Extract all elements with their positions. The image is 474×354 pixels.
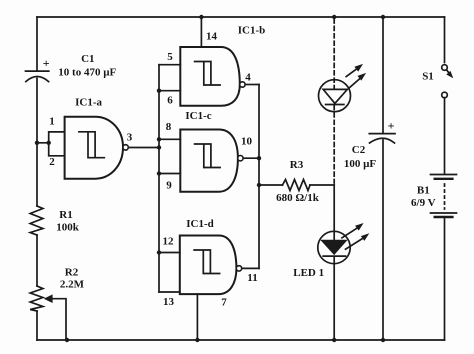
wire pin 14 (200, 17, 202, 47)
node junction left rail to IC1-a (35, 141, 39, 145)
svg-text:R1: R1 (59, 209, 72, 221)
svg-text:7: 7 (221, 297, 227, 309)
svg-text:C1: C1 (81, 53, 94, 65)
svg-text:100 µF: 100 µF (344, 158, 377, 170)
svg-text:4: 4 (245, 72, 251, 84)
wire pin 8 (159, 138, 180, 140)
schmitt symbol IC1-d (194, 250, 220, 274)
wire C2 branch lower (382, 140, 384, 340)
node junction bus pin12 (157, 250, 161, 254)
svg-text:2: 2 (49, 156, 55, 168)
svg-text:6: 6 (167, 95, 173, 107)
svg-text:IC1-d: IC1-d (186, 218, 214, 230)
capacitor C2 (369, 134, 395, 143)
LED alternate (open) (319, 80, 351, 112)
wire pin 5 (159, 64, 180, 66)
LED LED1 (318, 231, 350, 263)
svg-text:R3: R3 (290, 159, 304, 171)
resistor R1 (30, 206, 43, 235)
node junction bottom LED1 (332, 338, 336, 342)
schmitt symbol IC1-a (79, 132, 104, 158)
wire gate input bus (158, 65, 160, 292)
op-amp gate IC1-b body (180, 47, 240, 106)
node junction bottom pin7 (195, 338, 199, 342)
wire left rail mid (C1 to R1) (36, 79, 38, 207)
wire R2 to bottom rail (36, 311, 38, 340)
svg-text:R2: R2 (65, 267, 79, 279)
wire IC1-b output pin 4 (245, 84, 259, 86)
wire C2 branch upper (382, 17, 384, 134)
node junction bottom wiper (65, 338, 69, 342)
wire dashed alternate LED position lower (333, 106, 335, 184)
svg-text:12: 12 (163, 236, 175, 248)
op-amp gate IC1-d body (180, 236, 237, 295)
node junction top C2 branch (381, 15, 385, 19)
wire IC1-a input branch (37, 132, 65, 156)
svg-text:3: 3 (127, 132, 133, 144)
node junction bus pin3 (157, 145, 161, 149)
svg-text:10 to 470 µF: 10 to 470 µF (58, 67, 116, 79)
svg-text:5: 5 (167, 51, 173, 63)
node junction IC1-a input bracket (47, 141, 51, 145)
LED1 arrows (342, 223, 369, 249)
wire left rail upper (top to C1) (36, 17, 38, 71)
output bubble IC1-d (236, 266, 241, 271)
svg-text:+: + (388, 119, 395, 133)
svg-text:9: 9 (166, 180, 172, 192)
capacitor C1 (26, 71, 49, 82)
svg-text:10: 10 (241, 136, 253, 148)
node junction bus pin6 (157, 89, 161, 93)
svg-text:IC1-b: IC1-b (238, 25, 266, 37)
wire gate output bus (258, 85, 260, 269)
node junction output bus pin10 (257, 156, 261, 160)
svg-text:14: 14 (206, 31, 218, 43)
LED alternate arrows (346, 64, 366, 88)
wire pin 9 (159, 173, 180, 175)
wire top rail (37, 16, 445, 18)
output bubble IC1-a (123, 145, 128, 150)
svg-text:680 Ω/1k: 680 Ω/1k (276, 192, 320, 204)
schmitt symbol IC1-b (195, 62, 221, 86)
node junction bus pin8 (157, 137, 161, 141)
resistor R3 (259, 180, 334, 191)
svg-text:2.2M: 2.2M (60, 279, 85, 291)
svg-text:13: 13 (163, 296, 175, 308)
svg-text:+: + (43, 56, 50, 70)
svg-text:LED 1: LED 1 (293, 267, 324, 279)
node junction bus pin9 (157, 171, 161, 175)
wire bottom rail (37, 339, 445, 341)
svg-text:1: 1 (49, 116, 55, 128)
svg-text:C2: C2 (352, 144, 366, 156)
potentiometer R2 (30, 286, 43, 311)
op-amp gate IC1-c body (180, 130, 238, 192)
wire dashed alternate LED position upper (333, 19, 335, 89)
op-amp gate IC1-a body (65, 117, 123, 179)
wire R1 to R2 (36, 235, 38, 286)
wire battery to bottom rail (444, 219, 446, 340)
output bubble IC1-c (238, 156, 243, 161)
svg-text:100k: 100k (56, 222, 80, 234)
node junction top dashed branch (332, 15, 336, 19)
node junction top pin14 (199, 15, 203, 19)
svg-text:6/9 V: 6/9 V (411, 197, 436, 209)
svg-text:IC1-a: IC1-a (75, 97, 102, 109)
svg-text:S1: S1 (422, 71, 434, 83)
wire LED1 to bottom rail (333, 257, 335, 341)
svg-text:B1: B1 (417, 185, 430, 197)
schmitt symbol IC1-c (195, 144, 221, 168)
wire pin 7 to bottom rail (196, 294, 198, 340)
svg-text:11: 11 (247, 272, 257, 284)
node junction bottom C2 (381, 338, 385, 342)
switch S1 (442, 65, 454, 98)
output bubble IC1-b (240, 82, 245, 87)
wire R3 corner to LED 1 (333, 185, 335, 240)
wire pin 12 (159, 252, 180, 254)
svg-text:IC1-c: IC1-c (185, 110, 211, 122)
wire IC1-c output pin 10 (243, 157, 259, 159)
wire pin 6 (159, 90, 180, 92)
potentiometer R2 wiper arm (51, 299, 66, 340)
wire IC1-d output pin 11 (242, 267, 260, 269)
wire IC1-a output pin 3 (128, 147, 159, 149)
wire right rail upper (444, 17, 446, 63)
svg-text:8: 8 (166, 121, 172, 133)
node junction output bus R3 (257, 183, 261, 187)
battery B1 (431, 175, 457, 218)
wire S1 to battery (444, 98, 446, 173)
wire pin 13 (159, 291, 180, 293)
